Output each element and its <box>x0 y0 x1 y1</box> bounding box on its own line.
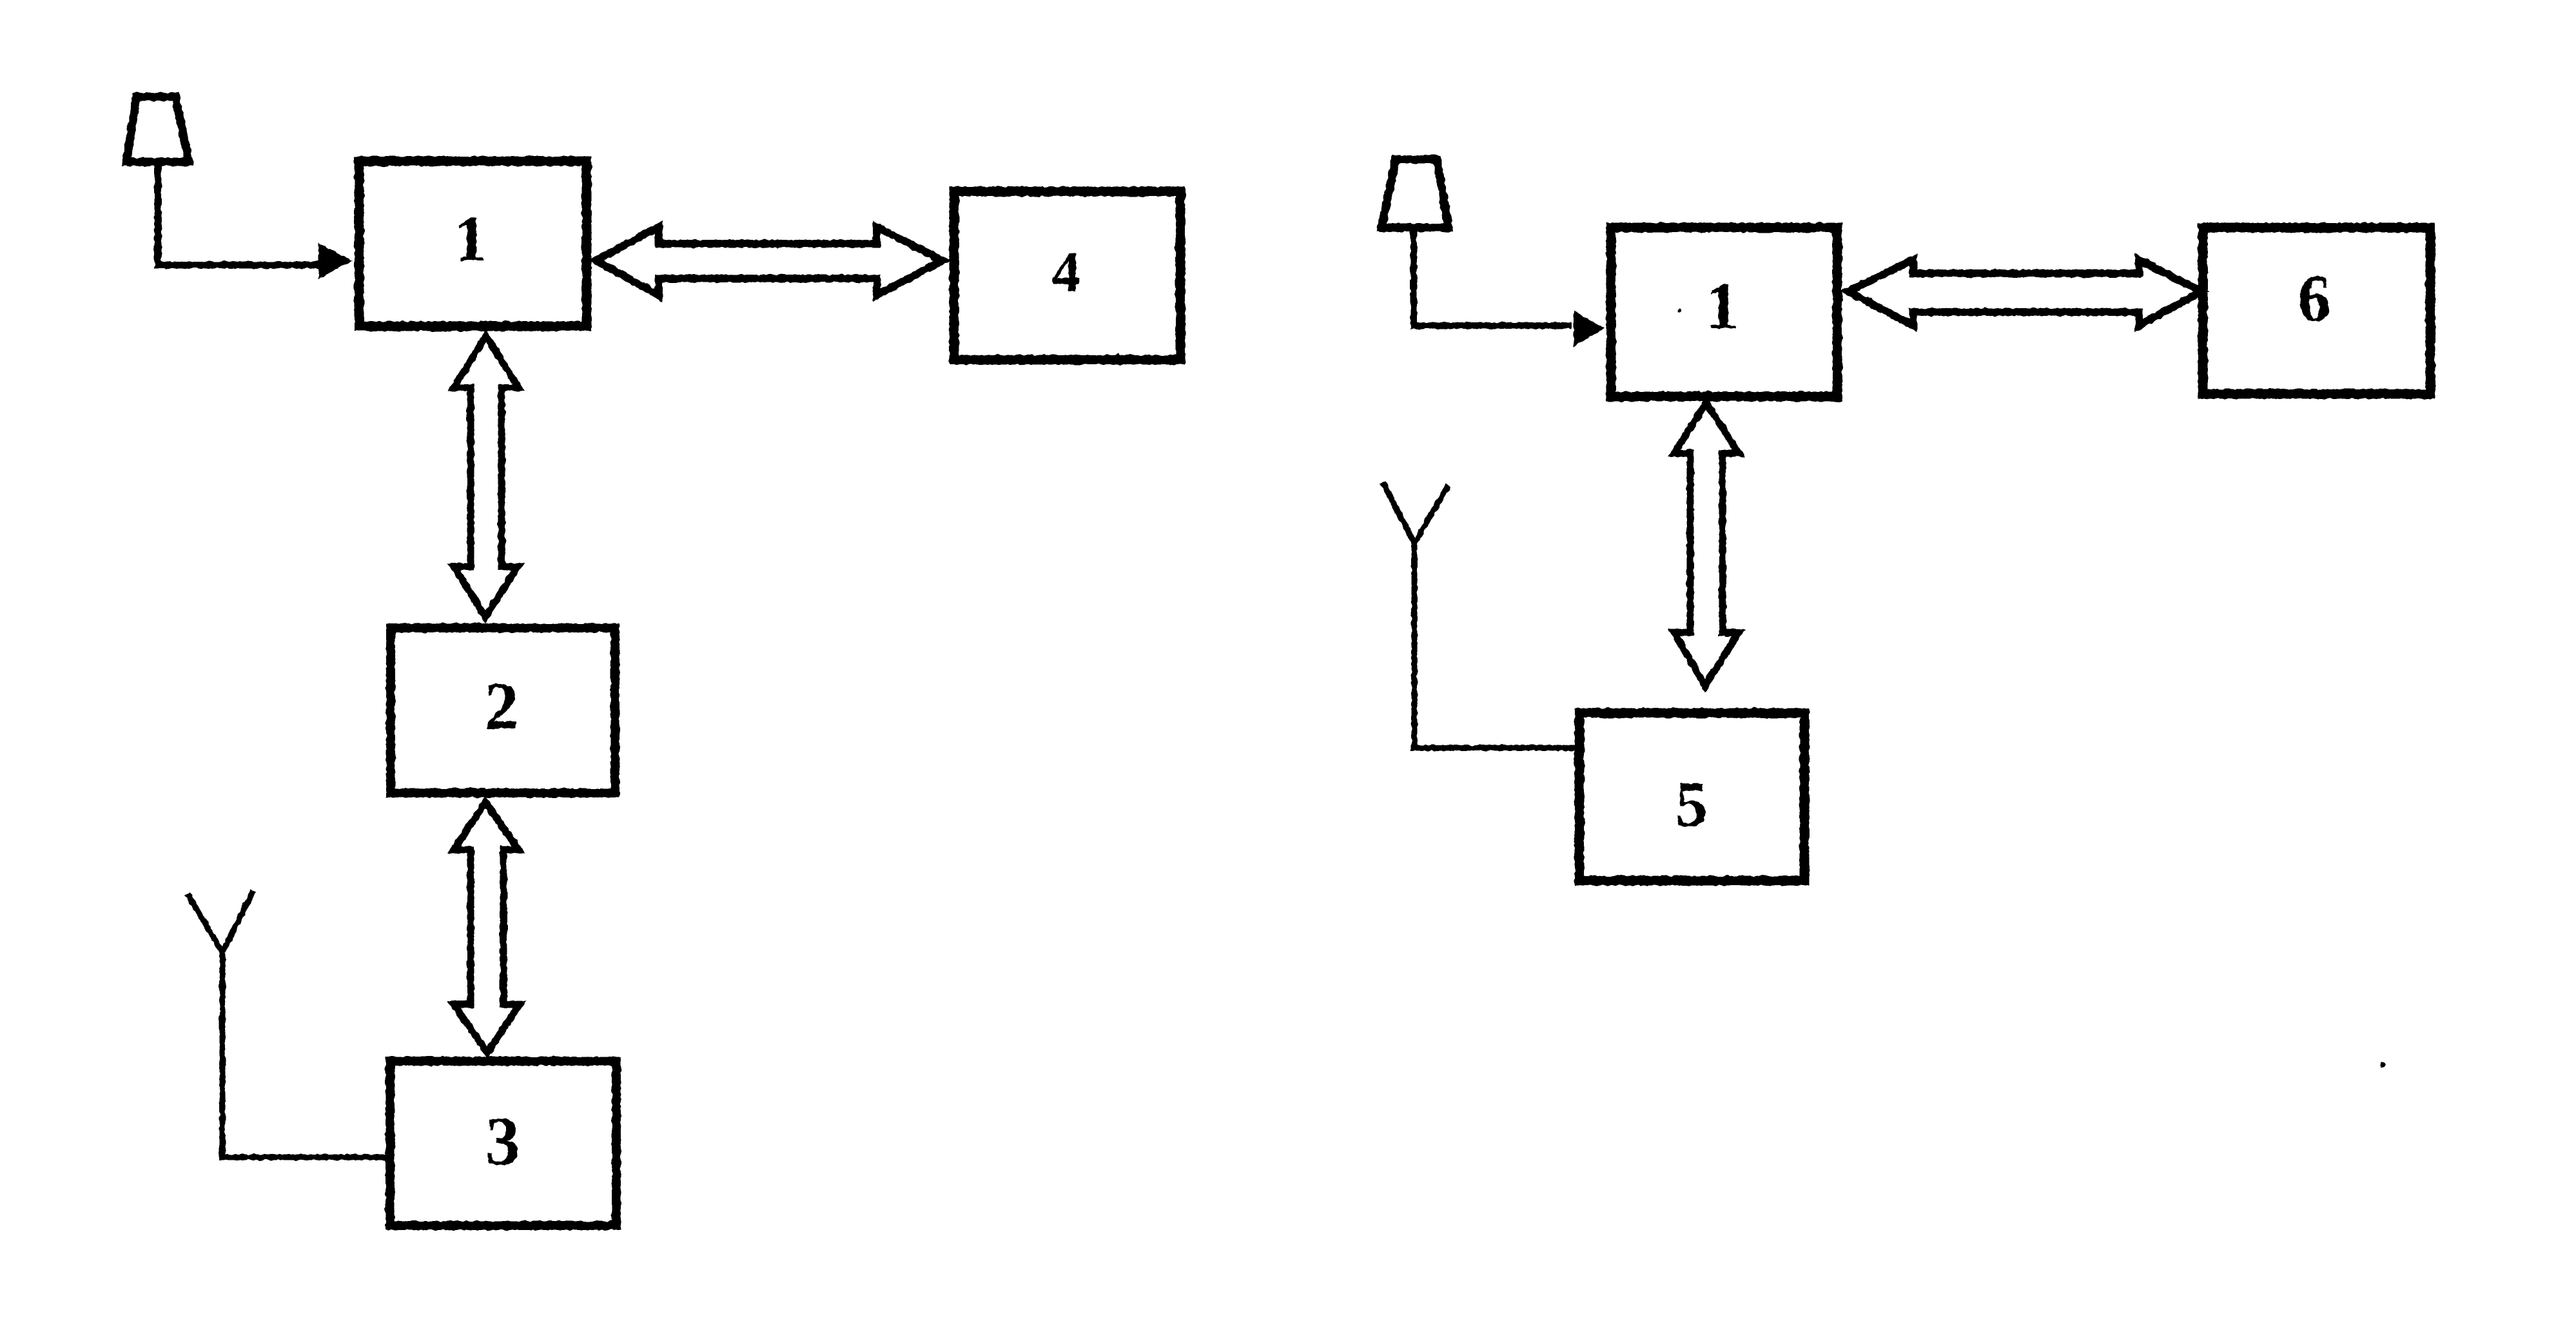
svg-text:4: 4 <box>1052 240 1081 304</box>
svg-text:3: 3 <box>485 1104 520 1180</box>
svg-text:2: 2 <box>485 669 518 743</box>
svg-text:1: 1 <box>454 203 487 275</box>
svg-text:6: 6 <box>2298 262 2331 335</box>
svg-text:1: 1 <box>1706 269 1739 343</box>
svg-text:5: 5 <box>1675 768 1708 840</box>
